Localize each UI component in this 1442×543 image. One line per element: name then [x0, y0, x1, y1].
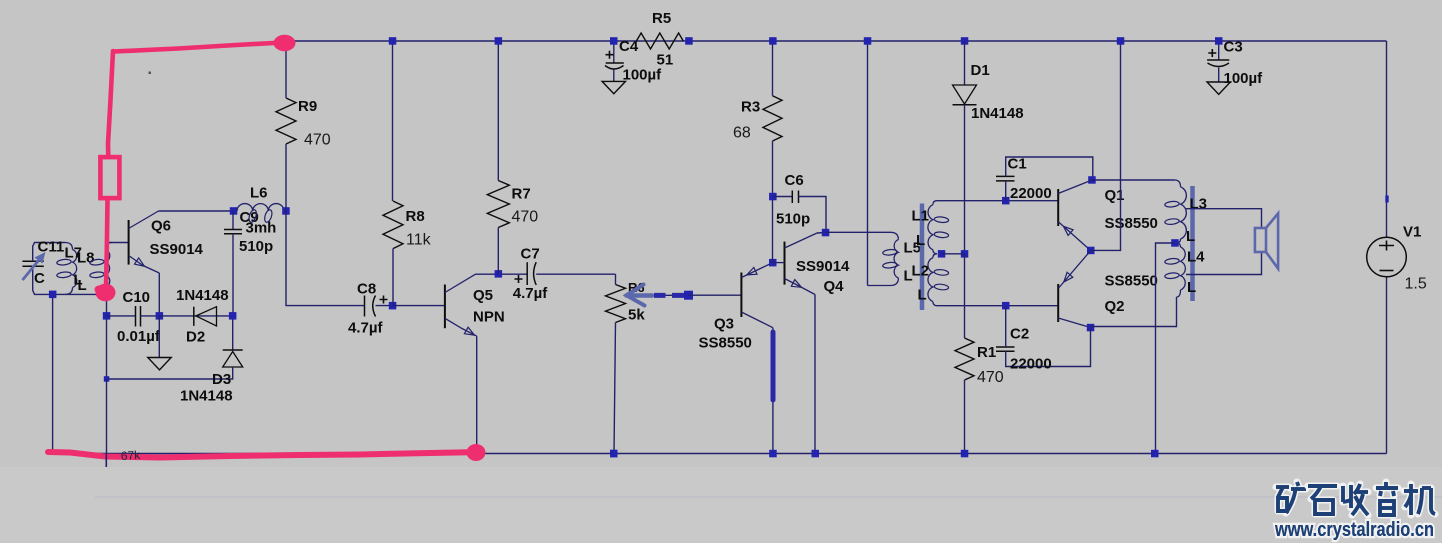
svg-text:C1: C1 — [1008, 156, 1027, 173]
svg-text:R3: R3 — [741, 99, 760, 116]
svg-text:67k: 67k — [120, 448, 141, 463]
svg-text:68: 68 — [733, 125, 751, 142]
resistor R1 — [955, 338, 974, 380]
junction C6 tap — [769, 193, 777, 201]
wire C8 to R8 node — [376, 305, 393, 307]
junction L6 right node — [282, 207, 290, 215]
wire R6 wiper — [630, 294, 689, 296]
wire C2 top lead — [1005, 306, 1007, 347]
svg-text:SS9014: SS9014 — [796, 258, 850, 275]
svg-text:Q6: Q6 — [151, 218, 171, 235]
wire C10 row left — [106, 294, 108, 379]
svg-text:D2: D2 — [186, 329, 205, 346]
junction Q2 collector node — [1087, 324, 1095, 332]
svg-text:L4: L4 — [1187, 249, 1205, 266]
junction R3 top rail — [769, 37, 777, 45]
diode D1 — [953, 85, 977, 104]
wire C6 right lead — [799, 197, 827, 233]
junction L3/L4 center tap — [1171, 239, 1179, 247]
svg-text:SS9014: SS9014 — [150, 241, 204, 258]
junction common emitter node — [1087, 247, 1095, 255]
diode D3 — [223, 352, 243, 368]
thick navy stroke on Q3 collector — [771, 332, 776, 400]
junction C4 rail — [610, 37, 618, 45]
wire R8 bottom — [392, 249, 394, 306]
capacitor C4 (polarized) — [613, 41, 615, 63]
svg-text:470: 470 — [977, 369, 1004, 386]
junction R7/Q5 collector — [495, 270, 503, 278]
svg-text:L1: L1 — [912, 208, 930, 225]
ground symbol (C4) — [602, 81, 625, 93]
junction wiper node — [684, 291, 693, 300]
wire R8 top — [392, 41, 394, 201]
wire Q6 emitter down — [158, 273, 160, 316]
ground wire below C10 — [158, 316, 160, 358]
R6 wiper arrow (slate) — [627, 285, 645, 306]
wire D1 to center tap — [964, 105, 966, 254]
junction tank bottom — [49, 291, 57, 299]
wire D1 top — [964, 41, 966, 85]
pin mark above V1 — [1385, 196, 1388, 203]
wire L6 node down and to C8 — [286, 211, 365, 306]
speaker (slate) — [1255, 228, 1266, 252]
svg-text:D3: D3 — [212, 371, 231, 388]
svg-text:C: C — [34, 270, 45, 287]
watermark glyph shi — [1308, 486, 1337, 514]
wire T1 top secondary to Q1 base — [937, 200, 1058, 202]
C11 variable-cap arrow (slate) — [23, 258, 42, 281]
svg-text:1.5: 1.5 — [1405, 276, 1427, 293]
svg-text:Q2: Q2 — [1105, 298, 1125, 315]
wire C11 bottom lead — [33, 266, 107, 294]
svg-text:100µf: 100µf — [1224, 70, 1264, 87]
svg-text:100µf: 100µf — [623, 67, 663, 84]
wire R6 top — [615, 274, 617, 284]
svg-text:L6: L6 — [250, 185, 268, 202]
wire C11 top lead — [33, 243, 65, 262]
wire Q1 collector to L3 — [1092, 179, 1175, 181]
junction R8 top rail — [389, 37, 397, 45]
wire D3 bottom loop — [107, 367, 233, 379]
svg-text:R1: R1 — [977, 344, 996, 361]
wire R3 top — [772, 41, 774, 96]
transformer T2 core bar (slate) — [1190, 186, 1195, 301]
pink wire left vertical lower — [106, 200, 108, 288]
watermark glyph kuang — [1276, 482, 1306, 513]
svg-text:1N4148: 1N4148 — [971, 105, 1024, 122]
resistor R9 — [276, 98, 296, 144]
junction center tap bottom rail — [1151, 450, 1159, 458]
svg-text:C6: C6 — [785, 172, 804, 189]
svg-text:R8: R8 — [406, 208, 425, 225]
capacitor C11 (variable) plates — [22, 261, 43, 266]
wire left column C11 tank to bottom rail — [52, 294, 54, 453]
wire C2 bottom loop — [1006, 328, 1091, 367]
transistor Q3 body — [740, 273, 742, 318]
wire bottom ground rail — [53, 453, 1387, 455]
pink bottom wire — [48, 452, 470, 458]
wire R1 bottom — [964, 380, 966, 454]
svg-text:C7: C7 — [521, 246, 540, 263]
wire speaker top tap — [1186, 209, 1262, 228]
svg-text:Q1: Q1 — [1105, 187, 1125, 204]
wire C10 left lead — [107, 315, 136, 317]
svg-text:SS8550: SS8550 — [1105, 273, 1158, 290]
junction C10 left node — [103, 312, 111, 320]
capacitor C8 (polarized) — [364, 296, 366, 317]
junction bottom rail (R6) — [610, 450, 618, 458]
voltage source V1 — [1367, 237, 1407, 277]
resistor R3 — [763, 96, 782, 141]
junction C1 base node — [1002, 197, 1010, 205]
svg-text:5k: 5k — [628, 307, 645, 324]
speck — [149, 72, 152, 75]
svg-text:Q4: Q4 — [824, 278, 845, 295]
junction Q6 collector node — [230, 207, 238, 215]
svg-text:L3: L3 — [1190, 196, 1208, 213]
wire R6 bottom — [614, 323, 616, 454]
junction D loop left — [104, 376, 110, 382]
wire top power rail — [284, 40, 1387, 42]
wire Q4 collector to L5 top — [826, 231, 891, 233]
svg-text:C10: C10 — [123, 289, 151, 306]
wire speaker bottom tap — [1186, 252, 1262, 275]
svg-text:Q5: Q5 — [473, 287, 493, 304]
junction Q3 collector bottom — [769, 450, 777, 458]
transistor Q2 body — [1057, 284, 1059, 322]
junction center tap node — [961, 250, 969, 258]
svg-text:www.crystalradio.cn: www.crystalradio.cn — [1274, 519, 1434, 541]
inductor L5 (primary) — [891, 232, 899, 239]
junction Q4 collector node — [822, 229, 830, 237]
pink junction blob top — [274, 35, 296, 51]
svg-text:C8: C8 — [357, 281, 376, 298]
capacitor C2 plates — [996, 347, 1015, 351]
junction Q3/Q4/R3 node — [769, 259, 777, 267]
pink junction blob left — [96, 284, 116, 302]
ground symbol (C10) — [148, 358, 171, 370]
svg-text:1N4148: 1N4148 — [176, 287, 229, 304]
plus C8 — [380, 296, 388, 304]
junction C9/D2/D3 node — [229, 312, 237, 320]
wire C6 left lead — [773, 196, 792, 198]
wire L4 bottom to Q2 collector — [1091, 297, 1177, 327]
wire Q5 emitter down — [476, 336, 478, 453]
svg-text:11k: 11k — [406, 232, 432, 249]
svg-text:4.7µf: 4.7µf — [348, 320, 383, 337]
resistor R5 — [636, 33, 683, 49]
capacitor C3 (polarized) — [1218, 41, 1220, 60]
svg-text:L8: L8 — [77, 250, 95, 267]
wire C1 bottom lead — [1005, 181, 1007, 201]
svg-text:L2: L2 — [912, 263, 930, 280]
wire T1 bottom secondary to Q2 base — [937, 305, 1058, 307]
svg-text:C3: C3 — [1224, 39, 1243, 56]
watermark glyph yin — [1376, 482, 1398, 515]
svg-text:4.7µf: 4.7µf — [513, 285, 548, 302]
svg-text:L: L — [1187, 279, 1196, 296]
transistor Q6 body — [128, 220, 130, 265]
inductor L8 — [106, 243, 113, 250]
wire D3 column — [232, 316, 234, 350]
wire R3 bottom — [772, 141, 774, 263]
svg-text:L: L — [916, 232, 925, 249]
pink wire top segment — [114, 43, 283, 52]
inductor L4 — [1177, 243, 1181, 247]
junction R6 bottom rail — [610, 450, 618, 458]
junction T1 center tap pin — [938, 250, 946, 258]
svg-text:R7: R7 — [512, 186, 531, 203]
wire center tap to bottom rail — [1156, 243, 1176, 454]
junction R7 top rail — [495, 37, 503, 45]
junction Q4 emitter bottom — [812, 450, 820, 458]
svg-text:V1: V1 — [1403, 224, 1421, 241]
wire R9 bottom — [285, 144, 287, 211]
pink junction blob bottom — [467, 444, 486, 461]
junction L5 rail — [864, 37, 872, 45]
bottom light band — [0, 467, 1442, 543]
capacitor C10 plates — [136, 306, 141, 327]
transistor Q5 body — [444, 285, 446, 329]
svg-text:SS8550: SS8550 — [1105, 215, 1158, 232]
resistor R8 — [383, 201, 403, 249]
svg-text:1N4148: 1N4148 — [180, 388, 233, 405]
wire L5 column from rail — [867, 41, 869, 286]
stub below pink (C10 column) — [105, 454, 107, 468]
capacitor C9 plates — [224, 230, 242, 234]
junction C2 base node — [1002, 302, 1010, 310]
svg-text:D1: D1 — [971, 62, 990, 79]
transistor Q4 body — [784, 242, 786, 285]
resistor R6 (pot) — [606, 285, 626, 323]
wire Q4 emitter down — [814, 295, 816, 454]
svg-text:L: L — [918, 287, 927, 304]
inductor L1 (secondary top) — [933, 201, 937, 205]
svg-text:Q3: Q3 — [714, 316, 734, 333]
junction emitters rail — [1117, 37, 1125, 45]
svg-text:C2: C2 — [1010, 326, 1029, 343]
inductor L3 — [1175, 180, 1181, 187]
svg-text:L: L — [78, 277, 87, 294]
svg-text:R9: R9 — [298, 98, 317, 115]
junction C3 rail — [1215, 37, 1223, 45]
watermark glyph shou — [1343, 484, 1368, 515]
junction D1 rail — [961, 37, 969, 45]
wire Q5 collector — [476, 273, 527, 275]
ground symbol (C3) — [1207, 82, 1230, 94]
svg-text:SS8550: SS8550 — [699, 335, 752, 352]
inductor L6 — [237, 204, 284, 211]
resistor R7 — [487, 181, 509, 228]
svg-text:R5: R5 — [652, 10, 671, 27]
svg-text:51: 51 — [657, 52, 674, 69]
plus C4 — [606, 51, 614, 59]
svg-text:L: L — [1186, 228, 1195, 245]
pink resistor box — [100, 157, 119, 198]
wire L8 to Q6 base — [107, 242, 129, 244]
wire center tap to R1 — [964, 254, 966, 338]
wire emitters to rail column — [1091, 41, 1121, 250]
wire Q3 collector down — [772, 328, 774, 454]
svg-text:0.01µf: 0.01µf — [117, 328, 161, 345]
wire right rail upper (to V1) — [1386, 41, 1388, 237]
inductor L7 — [65, 243, 73, 250]
wire R7 bottom — [497, 228, 499, 274]
wire R8 node to Q5 base — [393, 305, 445, 307]
junction R1 bottom rail — [961, 450, 969, 458]
wire C10 right lead — [141, 315, 160, 317]
capacitor C6 plates — [792, 191, 798, 204]
wire R9 top — [285, 41, 287, 98]
plus C3 — [1208, 49, 1216, 57]
wire Q4 collector — [817, 232, 826, 235]
wire C9 upper lead — [232, 211, 234, 230]
svg-text:470: 470 — [512, 209, 539, 226]
wire R7 top — [497, 41, 499, 181]
wire Q6 collector to node — [159, 210, 234, 212]
junction Q1 collector node — [1088, 176, 1096, 184]
junction C8/R8 node — [389, 302, 397, 310]
junction R5 right — [685, 37, 693, 45]
pink wire left vertical upper — [108, 51, 113, 156]
capacitor C7 (polarized) — [526, 262, 528, 285]
svg-text:470: 470 — [304, 132, 331, 149]
svg-text:510p: 510p — [239, 238, 273, 255]
wire wiper to Q3 base — [689, 294, 742, 296]
inductor L2 (secondary bottom) — [933, 254, 937, 258]
wire C1 top loop — [1006, 157, 1093, 180]
wire D2 anode lead — [159, 315, 232, 317]
faint baseline — [95, 496, 1442, 498]
wire C7 to R6 — [536, 273, 615, 275]
svg-text:NPN: NPN — [473, 309, 505, 326]
plus C7 — [515, 275, 523, 283]
svg-text:C11: C11 — [38, 239, 65, 256]
svg-text:510p: 510p — [776, 211, 810, 228]
wire Q6-gnd column to bottom rail — [106, 379, 108, 454]
R6 wiper thick navy stroke — [654, 293, 687, 298]
junction C10/D2/gnd node — [156, 312, 164, 320]
wire C9 lower lead — [232, 234, 234, 316]
capacitor C1 plates — [996, 176, 1015, 181]
wire T1 center tap — [942, 253, 965, 255]
diode D2 — [196, 307, 217, 326]
wire right rail lower (V1 to bottom) — [1386, 277, 1388, 454]
svg-text:22000: 22000 — [1010, 185, 1052, 202]
transistor Q1 body — [1057, 189, 1059, 226]
transformer T1 core bar (slate) — [920, 204, 925, 311]
svg-text:22000: 22000 — [1010, 356, 1052, 373]
watermark glyph ji — [1404, 484, 1435, 515]
